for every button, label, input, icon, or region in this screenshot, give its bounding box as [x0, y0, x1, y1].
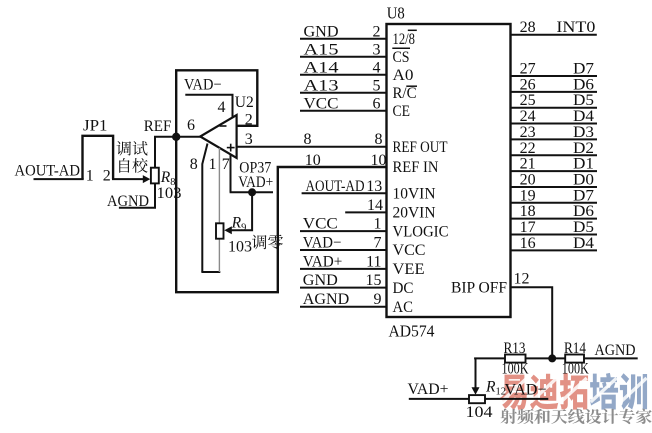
- wire pin12 BIP OFF down: [511, 287, 553, 358]
- pin number 9: [374, 291, 382, 308]
- svg-text:CE: CE: [393, 103, 411, 120]
- pin number 17: [520, 219, 536, 236]
- pin number 2: [373, 23, 381, 40]
- wire pin 28 INT0: [511, 34, 597, 36]
- pin number 10 label (right): [371, 152, 387, 169]
- pin number 16: [520, 235, 536, 252]
- net label D1 (pin 21): [573, 156, 594, 173]
- value 100K of R13: [502, 361, 530, 378]
- svg-text:U8: U8: [387, 4, 405, 23]
- svg-text:100K: 100K: [502, 361, 530, 378]
- wire A13 to pin 5: [300, 92, 387, 94]
- label REF: [144, 118, 172, 135]
- wire opamp pin8 down: [202, 144, 207, 273]
- net label VAD+ (pin11): [303, 253, 343, 270]
- wire pin 22 D2: [511, 154, 598, 156]
- wire VAD- to pin4: [185, 95, 232, 118]
- svg-text:R/C: R/C: [393, 85, 417, 102]
- wire opamp pin7 down: [230, 155, 232, 193]
- svg-text:20VIN: 20VIN: [393, 205, 436, 222]
- svg-text:1: 1: [374, 216, 382, 233]
- pin number 21: [520, 156, 536, 173]
- svg-text:AGND: AGND: [595, 342, 636, 359]
- label R14: [564, 340, 586, 357]
- net label D6 (pin 26): [573, 76, 594, 93]
- svg-text:14: 14: [367, 197, 383, 214]
- wire pin 18 D6: [511, 218, 598, 220]
- svg-text:D6: D6: [573, 203, 594, 220]
- pin number 13: [366, 178, 382, 195]
- net label D0 (pin 20): [573, 171, 594, 188]
- svg-text:D4: D4: [573, 235, 594, 252]
- net label D4 (pin 24): [573, 108, 594, 125]
- pin name 10VIN: [393, 186, 436, 203]
- wire VAD+ to R12: [409, 398, 469, 400]
- feedback wire REF to pin2: [176, 70, 257, 134]
- svg-text:VAD+: VAD+: [238, 174, 273, 191]
- pin name VCC (internal): [393, 242, 426, 259]
- pin number 1 of JP1: [86, 168, 94, 185]
- net label INT0: [556, 19, 595, 36]
- net label AOUT-AD: [15, 163, 81, 180]
- svg-text:BIP OFF: BIP OFF: [451, 279, 507, 296]
- svg-text:25: 25: [520, 92, 536, 109]
- svg-text:104: 104: [466, 404, 493, 421]
- svg-text:REF: REF: [144, 118, 172, 135]
- wire junction down to R12 wiper: [475, 358, 477, 390]
- pin name 20VIN: [393, 205, 436, 222]
- label OP37: [239, 160, 271, 177]
- pin number 15: [366, 272, 382, 289]
- pin name DC: [393, 280, 414, 297]
- svg-text:10VIN: 10VIN: [393, 186, 436, 203]
- svg-text:AGND: AGND: [303, 291, 350, 308]
- svg-text:A14: A14: [304, 59, 339, 76]
- svg-text:R13: R13: [504, 340, 526, 357]
- net label D3 (pin 23): [573, 124, 594, 141]
- pin number 26: [520, 76, 536, 93]
- net label GND (pin15): [303, 272, 338, 289]
- svg-text:20: 20: [520, 171, 536, 188]
- resistor R12 body: [469, 395, 485, 403]
- label JP1: [83, 118, 108, 135]
- wire GND to pin 2: [300, 38, 387, 40]
- wire pin 26 D6: [511, 91, 598, 93]
- svg-text:16: 16: [520, 235, 536, 252]
- svg-text:DC: DC: [393, 280, 414, 297]
- net label D4 (pin 16): [573, 235, 594, 252]
- pin number 12: [514, 271, 530, 288]
- svg-text:JP1: JP1: [83, 118, 108, 135]
- svg-text:A15: A15: [304, 41, 339, 58]
- net label VCC (pin1): [303, 216, 338, 233]
- net label AGND (bottom): [595, 342, 636, 359]
- svg-text:1: 1: [209, 156, 217, 173]
- svg-text:VAD−: VAD−: [303, 235, 342, 252]
- pin name BIP OFF: [451, 279, 507, 296]
- svg-text:R14: R14: [564, 340, 586, 357]
- pin name AC: [393, 299, 414, 316]
- value 100K of R14: [562, 361, 590, 378]
- wire pin 21 D1: [511, 170, 598, 172]
- wire VCC to pin 1: [300, 230, 387, 232]
- svg-text:26: 26: [520, 76, 536, 93]
- pin number 22: [520, 140, 536, 157]
- net label D6 (pin 18): [573, 203, 594, 220]
- svg-text:A13: A13: [304, 77, 339, 94]
- wire AGND to pin 9: [300, 306, 387, 308]
- wire pin 16 D4: [511, 249, 598, 251]
- connector JP1 symbol: [83, 136, 114, 179]
- wire JP1 pin2 to R8 wiper: [112, 178, 145, 180]
- pin number 24: [520, 108, 536, 125]
- svg-text:21: 21: [520, 156, 536, 173]
- svg-text:AD574: AD574: [389, 322, 435, 341]
- svg-text:D6: D6: [573, 76, 594, 93]
- svg-text:5: 5: [373, 77, 381, 94]
- net label GND: [304, 23, 339, 40]
- svg-text:8: 8: [375, 131, 383, 148]
- wire pin 17 D5: [511, 234, 598, 236]
- svg-text:19: 19: [520, 187, 536, 204]
- svg-text:GND: GND: [303, 272, 338, 289]
- svg-text:3: 3: [373, 41, 381, 58]
- svg-text:3: 3: [245, 131, 253, 148]
- svg-text:12/8: 12/8: [393, 31, 416, 48]
- pin number 28: [520, 19, 536, 36]
- pin name VEE: [393, 261, 425, 278]
- label R8: [160, 169, 176, 188]
- svg-text:24: 24: [520, 108, 536, 125]
- svg-text:13: 13: [366, 178, 382, 195]
- svg-text:AC: AC: [393, 299, 414, 316]
- wire A14 to pin 4: [300, 74, 387, 76]
- wire pin 19 D7: [511, 202, 598, 204]
- svg-text:U2: U2: [235, 94, 254, 111]
- svg-text:23: 23: [520, 124, 536, 141]
- svg-text:D5: D5: [573, 92, 594, 109]
- node VAD+ junction dot: [248, 188, 256, 196]
- wire VAD+ to R9 wiper: [228, 192, 252, 230]
- resistor R14 body: [565, 355, 584, 363]
- svg-text:VCC: VCC: [303, 216, 338, 233]
- svg-text:10: 10: [305, 152, 321, 169]
- svg-text:VAD−: VAD−: [184, 77, 222, 94]
- pin number 7 of U2: [222, 156, 230, 173]
- pin number 19: [520, 187, 536, 204]
- wire A15 to pin 3: [300, 56, 387, 58]
- svg-text:VEE: VEE: [393, 261, 425, 278]
- wire VAD+ to pin 11: [300, 268, 387, 270]
- pin name A0: [393, 67, 414, 84]
- svg-text:103: 103: [157, 185, 182, 202]
- svg-text:D1: D1: [573, 156, 594, 173]
- pin number 6 of U2: [187, 117, 195, 134]
- wire opamp pin3 to AD574 pin8: [237, 146, 387, 148]
- pin number 27: [520, 61, 536, 78]
- svg-text:2: 2: [103, 168, 111, 185]
- wire VAD+ rail: [230, 191, 273, 193]
- svg-text:17: 17: [520, 219, 536, 236]
- svg-text:28: 28: [520, 19, 536, 36]
- wire pin 27 D7: [511, 75, 598, 77]
- pin name R/C (overline C): [393, 85, 418, 102]
- svg-text:27: 27: [520, 61, 536, 78]
- pin number 10 label (left): [305, 152, 321, 169]
- svg-text:D5: D5: [573, 219, 594, 236]
- pin number 3: [373, 41, 381, 58]
- svg-text:7: 7: [374, 235, 382, 252]
- pin number 5: [373, 77, 381, 94]
- svg-text:VAD+: VAD+: [303, 253, 343, 270]
- pin number 4 of U2: [218, 99, 226, 116]
- pin number 6: [373, 95, 381, 112]
- pin number 20: [520, 171, 536, 188]
- svg-text:VLOGIC: VLOGIC: [393, 223, 449, 240]
- svg-text:6: 6: [187, 117, 195, 134]
- pin number 2 of JP1: [103, 168, 111, 185]
- pin number 14: [367, 197, 383, 214]
- watermark logo text: [500, 373, 647, 410]
- svg-text:AOUT-AD: AOUT-AD: [15, 163, 81, 180]
- pin number 18: [520, 203, 536, 220]
- label AD574: [389, 322, 435, 341]
- svg-text:8: 8: [304, 131, 312, 148]
- wiper arrow into R8: [143, 175, 151, 183]
- net label D7 (pin 19): [573, 187, 594, 204]
- net label D2 (pin 22): [573, 140, 594, 157]
- op-amp U2 triangle: [200, 115, 236, 158]
- svg-text:VCC: VCC: [304, 95, 339, 112]
- svg-text:1: 1: [86, 168, 94, 185]
- net label A15: [304, 41, 339, 58]
- svg-text:REF OUT: REF OUT: [393, 139, 449, 156]
- pin number 1 of U2: [209, 156, 217, 173]
- label U2: [235, 94, 254, 111]
- wire AOUT-AD to JP1 pin1: [34, 178, 84, 180]
- pin number 2 of U2: [245, 112, 253, 129]
- net label VAD- (pin7): [303, 235, 342, 252]
- wire pin8-pin1 bottom link: [201, 271, 220, 273]
- wire AGND to R8 bottom: [119, 183, 155, 207]
- net label D7 (pin 27): [573, 61, 594, 78]
- label R13: [504, 340, 526, 357]
- net label VAD- (bottom): [505, 382, 547, 399]
- net label D5 (pin 17): [573, 219, 594, 236]
- pin number 8 label (left): [304, 131, 312, 148]
- pin number 4: [373, 59, 381, 76]
- label AGND (left): [107, 193, 149, 210]
- pin number 3 of U2: [245, 131, 253, 148]
- node REF junction dot: [172, 133, 180, 141]
- wire opamp output to REF node: [174, 136, 202, 138]
- svg-text:D0: D0: [573, 171, 594, 188]
- svg-text:4: 4: [373, 59, 381, 76]
- svg-text:7: 7: [222, 156, 230, 173]
- wire pin 24 D4: [511, 123, 598, 125]
- pin name CS (overline): [392, 48, 410, 66]
- wire R9 bottom down (gray): [218, 238, 220, 272]
- value 103 of R9: [228, 239, 252, 256]
- pin name VLOGIC: [393, 223, 449, 240]
- node junction dot (BIP OFF net): [548, 354, 556, 362]
- svg-text:REF IN: REF IN: [393, 159, 439, 176]
- svg-text:8: 8: [190, 156, 198, 173]
- wire opamp pin1 down (gray): [218, 148, 220, 224]
- wiper arrow into R12: [472, 387, 480, 395]
- wire REF node down-around to AD574 pin10: [176, 137, 386, 292]
- pin name REF OUT: [393, 139, 449, 156]
- svg-text:CS: CS: [393, 49, 410, 66]
- svg-text:D2: D2: [573, 140, 594, 157]
- svg-text:22: 22: [520, 140, 536, 157]
- pin name REF IN: [393, 159, 439, 176]
- svg-text:D7: D7: [573, 61, 594, 78]
- label R12: [485, 379, 506, 398]
- net label VAD+ (opamp V+): [238, 174, 273, 191]
- resistor R13 body: [505, 355, 526, 363]
- op-amp non-inverting + sign: [227, 144, 235, 152]
- wire pin 20 D0: [511, 186, 598, 188]
- svg-text:11: 11: [366, 253, 381, 270]
- pin number 8 label (right): [375, 131, 383, 148]
- pin name CE: [393, 103, 411, 120]
- net label VAD- (opamp V-): [184, 77, 222, 94]
- svg-text:A0: A0: [393, 67, 414, 84]
- wire pin 23 D3: [511, 138, 598, 140]
- wire AOUT-AD to pin 13: [302, 192, 387, 194]
- pin number 25: [520, 92, 536, 109]
- wire R8 top to REF node: [155, 137, 176, 168]
- resistor R9 body: [216, 223, 224, 238]
- net label D5 (pin 25): [573, 92, 594, 109]
- wire VCC to pin 6: [300, 110, 387, 112]
- label 调零: [252, 235, 283, 250]
- value 103 of R8: [157, 185, 182, 202]
- svg-text:D7: D7: [573, 187, 594, 204]
- svg-text:103: 103: [228, 239, 252, 256]
- svg-text:AOUT-AD: AOUT-AD: [306, 178, 365, 195]
- pin number 7: [374, 235, 382, 252]
- value 104 of R12: [466, 404, 493, 421]
- net label AGND (pin9): [303, 291, 350, 308]
- net label AOUT-AD (pin13): [306, 178, 365, 195]
- wire stub pin 14: [345, 211, 386, 213]
- pin number 23: [520, 124, 536, 141]
- svg-text:100K: 100K: [562, 361, 590, 378]
- net label A14: [304, 59, 339, 76]
- svg-text:GND: GND: [304, 23, 339, 40]
- svg-text:D4: D4: [573, 108, 594, 125]
- resistor R8 body: [151, 168, 159, 184]
- watermark slogan text: [500, 409, 651, 425]
- label U8: [387, 4, 405, 23]
- wire bottom rail: [474, 357, 638, 359]
- svg-text:12: 12: [514, 271, 530, 288]
- pin number 8 of U2: [190, 156, 198, 173]
- pin name 12/8 (overline 8): [393, 30, 417, 48]
- wiper arrow into R9: [224, 226, 232, 234]
- svg-text:VAD+: VAD+: [408, 381, 449, 398]
- wire GND to pin 15: [300, 287, 387, 289]
- svg-text:6: 6: [373, 95, 381, 112]
- wire VAD- to pin 7: [300, 249, 387, 251]
- wire pin 25 D5: [511, 107, 598, 109]
- svg-text:4: 4: [218, 99, 226, 116]
- wire R12 to VAD-: [485, 398, 548, 400]
- svg-text:2: 2: [373, 23, 381, 40]
- svg-text:D3: D3: [573, 124, 594, 141]
- svg-text:15: 15: [366, 272, 382, 289]
- label R9: [231, 215, 247, 234]
- svg-text:2: 2: [245, 112, 253, 129]
- svg-text:10: 10: [371, 152, 387, 169]
- net label VAD+ (bottom): [408, 381, 449, 398]
- net label A13: [304, 77, 339, 94]
- svg-text:9: 9: [374, 291, 382, 308]
- svg-text:VCC: VCC: [393, 242, 426, 259]
- IC U8 AD574 box: [387, 24, 511, 317]
- net label VCC: [304, 95, 339, 112]
- op-amp inverting - sign: [220, 125, 227, 127]
- svg-text:18: 18: [520, 203, 536, 220]
- label 调试自校: [116, 141, 147, 173]
- pin number 11: [366, 253, 381, 270]
- svg-text:INT0: INT0: [556, 19, 595, 36]
- svg-text:VAD−: VAD−: [505, 382, 547, 399]
- pin number 1: [374, 216, 382, 233]
